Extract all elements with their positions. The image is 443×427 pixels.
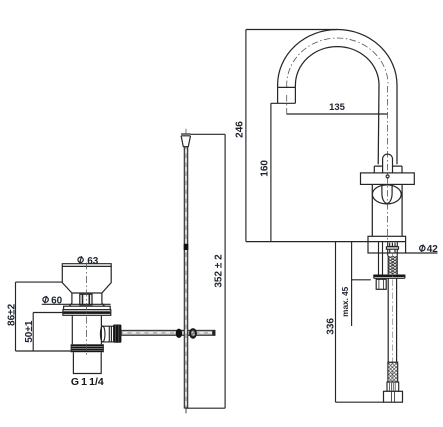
- svg-text:246: 246: [235, 121, 246, 138]
- waste flange plates: [64, 306, 111, 310]
- countertop line: [246, 241, 406, 243]
- lift rod black stop band: [184, 244, 189, 250]
- svg-text:60: 60: [51, 296, 63, 307]
- dimension 160 (spout outlet height): [270, 103, 272, 241]
- dimension phi63 (waste cup diameter): [62, 264, 111, 267]
- spout centre line (dash-dot arc): [287, 38, 388, 87]
- svg-text:86±2: 86±2: [6, 303, 17, 326]
- spout gooseneck outer contour: [278, 30, 397, 165]
- lift rod centre line tails: [185, 129, 187, 134]
- shank top connector: [388, 242, 398, 256]
- handle centre screw dot: [386, 175, 389, 178]
- svg-text:336: 336: [325, 318, 336, 335]
- aerator centre line extension: [286, 95, 288, 117]
- svg-text:42: 42: [427, 244, 439, 255]
- hose braid section: [388, 362, 398, 382]
- dimension 352+-2: [186, 134, 226, 408]
- hose crimp collar: [387, 382, 399, 391]
- svg-text:135: 135: [329, 102, 346, 113]
- dimension max.45 (mounting thickness): [352, 242, 371, 326]
- svg-text:352 ± 2: 352 ± 2: [214, 254, 225, 288]
- handle collar: [374, 166, 402, 173]
- body lower arm arc: [382, 184, 392, 203]
- pivot ball nut (dark): [113, 325, 121, 343]
- mounting nut: [376, 279, 386, 289]
- lift rod knob: [181, 134, 191, 147]
- faucet body sides: [372, 184, 402, 236]
- horizontal rod end tip: [212, 330, 215, 335]
- spout aerator end: [271, 87, 296, 103]
- svg-text:G 1 1/4: G 1 1/4: [71, 376, 104, 388]
- hose centre line: [391, 254, 393, 400]
- waste side port: [101, 326, 113, 342]
- svg-text:max. 45: max. 45: [341, 286, 350, 316]
- waste thread section (dark bands): [71, 344, 103, 352]
- dimension phi42 (base diameter) leader: [406, 252, 438, 254]
- vertical lift rod: [184, 147, 187, 408]
- dimension 135 (spout reach): [287, 113, 388, 115]
- washer under counter (dark): [374, 275, 405, 278]
- svg-text:160: 160: [259, 160, 270, 177]
- spout gooseneck inner contour: [295, 47, 379, 165]
- handle hub: [383, 154, 393, 173]
- waste cup (top): [62, 266, 111, 293]
- waste flange gasket (dark): [63, 311, 110, 314]
- svg-text:50±1: 50±1: [24, 320, 35, 343]
- rod clamp ball (left): [176, 329, 182, 338]
- dimension 50+-1: [33, 313, 62, 352]
- flexible supply hose: [388, 278, 396, 362]
- cross handle bar: [361, 173, 415, 185]
- rod clamp screw knob (right): [189, 328, 197, 339]
- svg-text:63: 63: [87, 256, 99, 267]
- waste body: [72, 315, 101, 344]
- hose end hex nut: [384, 391, 403, 402]
- dimension 336 (hose length): [336, 242, 384, 403]
- base flange: [368, 236, 406, 253]
- body boss ellipse: [372, 185, 401, 204]
- waste neck: [69, 293, 104, 306]
- waste neck slot boss: [80, 294, 92, 305]
- dimension phi60 (flange diameter): [42, 303, 111, 305]
- dimension 246 (total height): [246, 30, 337, 242]
- waste tailpipe: [73, 352, 101, 373]
- horizontal pop-up rod: [121, 330, 215, 335]
- shank thread lattice: [388, 256, 397, 274]
- mounting stud: [379, 242, 383, 275]
- dimension 86+-2: [16, 282, 72, 351]
- faucet body centre line: [387, 86, 389, 242]
- waste centre line: [86, 263, 88, 357]
